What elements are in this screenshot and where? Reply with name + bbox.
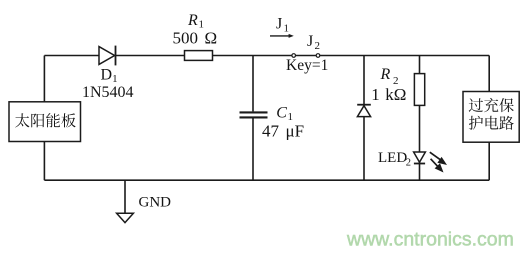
solar panel box 太阳能板 [9, 102, 81, 142]
resistor R2 [414, 74, 424, 106]
wire left vertical (top rail to solar panel) [43, 56, 45, 103]
resistor R1 [185, 51, 213, 61]
svg-text:2: 2 [406, 158, 411, 169]
wire diode branch (unlabeled diode) [363, 56, 365, 181]
svg-text:R: R [380, 66, 391, 83]
wire solar panel to bottom rail [43, 142, 45, 181]
svg-text:GND: GND [139, 194, 172, 210]
wire top rail D1 to R1 [116, 55, 185, 57]
svg-text:Ω: Ω [205, 29, 218, 48]
wire bottom rail [44, 179, 489, 181]
svg-text:47: 47 [262, 122, 280, 141]
diode (shunt, unlabeled) [357, 105, 371, 117]
ground [117, 180, 134, 222]
wire right vertical upper (top rail to protection box) [488, 56, 490, 92]
svg-text:LED: LED [378, 150, 407, 166]
wire right vertical lower (protection box to bottom rail) [488, 142, 490, 180]
current arrow J1 [270, 34, 294, 38]
wire capacitor branch lower [252, 118, 254, 180]
svg-text:J: J [307, 33, 313, 50]
svg-text:1: 1 [199, 19, 205, 31]
svg-text:kΩ: kΩ [385, 85, 406, 104]
svg-text:Key=1: Key=1 [286, 57, 328, 74]
svg-text:C: C [276, 104, 287, 121]
switch J2 terminal circles [292, 54, 320, 58]
svg-text:1: 1 [371, 85, 380, 104]
wire top rail R1 to right corner [213, 55, 490, 57]
LED LED2 [414, 152, 426, 164]
overcharge protection circuit box 过充保护电路 [463, 92, 519, 143]
svg-text:R: R [187, 12, 198, 29]
svg-text:1N5404: 1N5404 [82, 84, 134, 101]
capacitor C1 [240, 112, 268, 117]
wire R2/LED branch [419, 56, 421, 181]
wire top rail left segment (solar panel to D1) [44, 55, 99, 57]
svg-text:μF: μF [286, 122, 305, 141]
LED2 light arrows [430, 152, 447, 172]
svg-text:www.cntronics.com: www.cntronics.com [346, 229, 514, 251]
svg-text:2: 2 [315, 40, 321, 52]
svg-text:J: J [276, 16, 282, 33]
wire capacitor branch upper [252, 56, 254, 112]
svg-text:1: 1 [284, 23, 290, 35]
svg-text:500: 500 [173, 29, 199, 48]
diode D1 [99, 46, 116, 66]
